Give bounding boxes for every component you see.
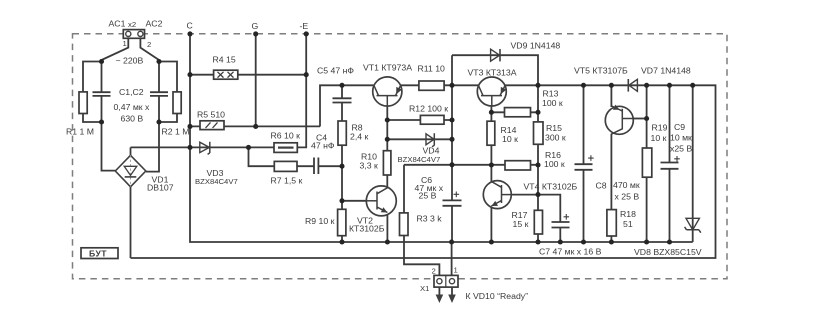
wire: VT4 emitter to rail xyxy=(490,206,492,242)
wire: G terminal line xyxy=(255,34,257,127)
svg-text:AC1: AC1 xyxy=(109,19,126,29)
resistor R3 xyxy=(400,213,409,236)
capacitor C7 electrolytic xyxy=(552,214,570,228)
connector X2 (AC input) xyxy=(123,30,144,39)
resistor R4 (fusible, xx marks) xyxy=(214,70,238,79)
svg-text:х 25 В: х 25 В xyxy=(615,192,640,202)
node: VT5 base / R19 xyxy=(644,116,649,121)
wire: R13 line xyxy=(491,111,538,113)
resistor R8 xyxy=(338,121,346,145)
capacitor C6 electrolytic xyxy=(443,192,462,206)
svg-text:630 В: 630 В xyxy=(121,114,144,124)
svg-text:G: G xyxy=(252,21,259,31)
transistor VT5 KT3107B (pnp, mirrored) xyxy=(605,105,633,135)
wire: AC1 pin1 down to left capacitor branch xyxy=(102,38,129,170)
svg-text:БУТ: БУТ xyxy=(89,248,107,258)
node: VD3 cathode / R6 / R7 xyxy=(246,145,251,150)
node: rail C8 xyxy=(581,239,586,244)
svg-text:300 к: 300 к xyxy=(545,133,566,143)
node: C4 / R8 bottom xyxy=(339,164,344,169)
transistor VT2 KT3102B (npn) xyxy=(366,186,396,216)
svg-text:C5 47 нФ: C5 47 нФ xyxy=(317,66,354,76)
wire: main vertical node line x452 with C6 xyxy=(451,55,453,242)
capacitor C1 xyxy=(93,92,111,96)
node: rail VT2 emitter xyxy=(385,239,390,244)
capacitor C5 xyxy=(333,98,352,102)
svg-text:R19: R19 xyxy=(652,123,668,133)
svg-text:R2 1 M: R2 1 M xyxy=(162,127,190,137)
svg-text:VT3 КТ313А: VT3 КТ313А xyxy=(468,68,517,78)
svg-text:10 к: 10 к xyxy=(502,134,518,144)
wire: R5 line xyxy=(190,125,320,127)
svg-text:R7 1,5 к: R7 1,5 к xyxy=(271,176,303,186)
node: VD8 top xyxy=(690,83,695,88)
transistor VT1 KT973A (pnp) xyxy=(373,77,402,106)
transistor VT3 KT313A (pnp) xyxy=(477,77,506,106)
svg-text:C: C xyxy=(187,21,193,31)
svg-text:R4 15: R4 15 xyxy=(213,55,236,65)
svg-text:2: 2 xyxy=(432,267,436,276)
wire: VT2 emitter to rail xyxy=(386,213,388,243)
node: C line / bridge+ / VD3 xyxy=(187,145,192,150)
resistor R9 xyxy=(338,209,346,235)
node: VT2 base xyxy=(339,198,344,203)
terminal C dot xyxy=(187,31,192,36)
svg-text:R15: R15 xyxy=(546,123,562,133)
node: C line / R5 xyxy=(187,124,192,129)
node: rail R17 xyxy=(535,239,540,244)
node: VD4 cathode xyxy=(449,137,454,142)
node: C8 top xyxy=(581,83,586,88)
svg-text:VT4 КТ3102Б: VT4 КТ3102Б xyxy=(524,182,578,192)
node: R19 top xyxy=(644,83,649,88)
svg-text:R11 10: R11 10 xyxy=(418,64,446,74)
capacitor C8 electrolytic xyxy=(575,155,594,170)
node: VD4 anode xyxy=(385,137,390,142)
wire: VT2 base line xyxy=(342,200,367,202)
resistor R5 (0.125W marks) xyxy=(200,121,224,130)
zener diode VD4 BZX84C4V7 xyxy=(426,133,434,147)
svg-text:Х1: Х1 xyxy=(420,284,429,293)
svg-text:C1,C2: C1,C2 xyxy=(119,87,144,97)
wire: C terminal line down and bottom common rail xyxy=(190,34,693,242)
wire: bridge - output stem down to lower rail xyxy=(130,187,132,258)
resistor R2 xyxy=(173,92,181,114)
diode VD7 1N4148 xyxy=(628,79,637,92)
wire: R7 C4 branch xyxy=(249,147,343,166)
BUT block label box xyxy=(81,248,118,259)
svg-text:3,3 к: 3,3 к xyxy=(360,161,378,171)
svg-text:2,4 к: 2,4 к xyxy=(350,132,368,142)
resistor R1 xyxy=(79,92,87,114)
wire: C8 line xyxy=(583,85,585,242)
svg-text:VD8 BZX85C15V: VD8 BZX85C15V xyxy=(634,247,702,257)
output arrow pin2 xyxy=(436,287,444,303)
node: R2 bottom junction xyxy=(156,119,161,124)
svg-text:VT5 КТ3107Б: VT5 КТ3107Б xyxy=(574,66,628,76)
diode VD9 1N4148 xyxy=(491,49,500,61)
svg-text:0,47 мк х: 0,47 мк х xyxy=(114,102,151,112)
wire: VD3 / R6 line from bridge to -E riser xyxy=(131,34,307,147)
node: R16 right xyxy=(535,162,540,167)
svg-text:R13: R13 xyxy=(543,89,559,99)
node: R11 / VT3 / x452 xyxy=(449,83,454,88)
resistor R10 xyxy=(383,151,391,175)
svg-text:47 нФ: 47 нФ xyxy=(311,141,335,151)
node: VT5 collector top xyxy=(609,83,614,88)
node: rail C7 xyxy=(558,239,563,244)
resistor R13 xyxy=(505,108,531,117)
wire: R5 riser, top supply line, right edge and lower rail xyxy=(131,85,716,258)
resistor R19 xyxy=(642,148,651,177)
capacitor C4 xyxy=(314,158,318,175)
svg-text:VD7 1N4148: VD7 1N4148 xyxy=(641,66,691,76)
wire: X1 pin1 up to rail xyxy=(451,242,453,276)
svg-text:10 к: 10 к xyxy=(651,133,667,143)
svg-text:VD4: VD4 xyxy=(423,146,440,156)
node: VT4 base / C7 branch xyxy=(535,192,540,197)
svg-text:R5 510: R5 510 xyxy=(197,110,225,120)
wire: R2 parallel branch xyxy=(159,62,177,123)
svg-text:R1 1 M: R1 1 M xyxy=(66,127,94,137)
svg-text:К VD10 “Ready”: К VD10 “Ready” xyxy=(466,291,529,301)
resistor R17 xyxy=(534,210,542,234)
node: x538 top xyxy=(535,83,540,88)
wire: R12 line xyxy=(387,119,452,121)
node: R1 bottom junction xyxy=(99,119,104,124)
svg-text:VT1 КТ973А: VT1 КТ973А xyxy=(363,63,412,73)
svg-text:25 В: 25 В xyxy=(419,191,437,201)
transistor VT4 KT3102B (npn, mirrored) xyxy=(483,181,511,209)
node: rail R9 xyxy=(339,239,344,244)
node: rail C6 / X1 pin1 xyxy=(449,239,454,244)
resistor R6 (0.5W mark) xyxy=(274,143,297,153)
zener diode VD8 BZX85C15V xyxy=(685,218,701,232)
resistor R12 xyxy=(420,115,444,124)
svg-text:10 мк: 10 мк xyxy=(670,133,692,143)
svg-text:470 мк: 470 мк xyxy=(613,180,640,190)
svg-text:1: 1 xyxy=(123,39,127,48)
svg-text:C7 47 мк x 16 В: C7 47 мк x 16 В xyxy=(539,247,602,257)
resistor R18 xyxy=(607,210,616,236)
wire: VD8 line xyxy=(692,85,694,242)
node: G line / R5 xyxy=(253,124,258,129)
node: R1 top junction xyxy=(99,59,104,64)
node: rail R18 xyxy=(609,239,614,244)
svg-text:DB107: DB107 xyxy=(147,183,174,193)
node: R3 / C6 / R16 line xyxy=(449,162,454,167)
svg-text:х2: х2 xyxy=(128,20,136,29)
wire: R19 vertical line xyxy=(646,85,648,242)
capacitor C9 electrolytic xyxy=(661,156,680,169)
wire: R3 branch down to connector X1 pin2 xyxy=(404,165,439,276)
svg-text:100 к: 100 к xyxy=(542,98,563,108)
svg-text:AC2: AC2 xyxy=(146,19,163,29)
svg-text:BZX84C4V7: BZX84C4V7 xyxy=(398,155,441,164)
connector X1 (Ready output) xyxy=(434,275,458,287)
svg-text:VD9 1N4148: VD9 1N4148 xyxy=(511,41,561,51)
node: VT3 base / R13 xyxy=(489,110,494,115)
wire: VD9 top line xyxy=(452,55,538,85)
wire: C7 branch xyxy=(538,195,560,242)
wire: AC2 pin2 down to right capacitor branch xyxy=(140,38,159,171)
capacitor C2 xyxy=(150,92,168,96)
svg-text:R3 3 k: R3 3 k xyxy=(417,214,443,224)
svg-text:-E: -E xyxy=(300,21,309,31)
wire: C9 line xyxy=(669,85,671,242)
block boundary dashed border (BUT unit) xyxy=(73,34,728,279)
terminal G dot xyxy=(253,31,258,36)
wire: R1 parallel branch xyxy=(83,62,102,123)
svg-text:C8: C8 xyxy=(596,181,607,191)
svg-text:КТ3102Б: КТ3102Б xyxy=(349,224,385,234)
svg-text:R18: R18 xyxy=(620,209,636,219)
svg-text:100 к: 100 к xyxy=(544,159,565,169)
svg-text:C9: C9 xyxy=(674,122,685,132)
svg-text:51: 51 xyxy=(623,219,633,229)
node: C line / R4 xyxy=(187,72,192,77)
svg-text:х25 В: х25 В xyxy=(670,144,692,154)
svg-text:2: 2 xyxy=(147,40,151,49)
wire: VT3 base down through R14 to VT4 collector xyxy=(490,106,492,183)
wire: bridge + output stem to node line xyxy=(130,147,132,155)
wire: R16 line from R3 node to x538 xyxy=(404,164,538,166)
svg-text:R9 10 к: R9 10 к xyxy=(305,216,335,226)
wire: VD4 line xyxy=(387,138,452,140)
wire: x538 vertical line xyxy=(537,85,539,242)
node: rail C9 xyxy=(667,239,672,244)
svg-text:~ 220В: ~ 220В xyxy=(116,56,144,66)
node: rail R19 xyxy=(644,239,649,244)
resistor R15 xyxy=(534,122,544,144)
node: R2 top junction xyxy=(156,59,161,64)
node: R13 right xyxy=(535,110,540,115)
wire: VT1 base down through R10 to VT2 collector xyxy=(386,106,388,189)
svg-text:R12 100 к: R12 100 к xyxy=(409,104,448,114)
node: C5 top xyxy=(339,83,344,88)
wire: C5 R8 R9 vertical line xyxy=(341,85,343,242)
resistor R14 xyxy=(487,121,495,145)
resistor R16 xyxy=(505,161,531,170)
terminal -E dot xyxy=(304,31,309,36)
node: VT1 base / R12 xyxy=(385,117,390,122)
node: rail VT4 emitter xyxy=(489,239,494,244)
node: C9 top xyxy=(667,83,672,88)
wire: VT4 base line xyxy=(511,194,538,196)
node: R12 right xyxy=(449,117,454,122)
resistor R11 xyxy=(419,81,444,90)
resistor R7 xyxy=(274,161,297,171)
wire: VT5 base to R19 line xyxy=(633,118,646,120)
bridge rectifier VD1 DB107 xyxy=(115,155,146,187)
wire: VT5 collector and emitter leads xyxy=(610,85,612,242)
zener diode VD3 BZX84C4V7 xyxy=(200,142,210,155)
wire: R4 line xyxy=(190,74,306,76)
node: R14 / VT4 collector xyxy=(489,162,494,167)
svg-text:BZX84C4V7: BZX84C4V7 xyxy=(195,177,238,186)
svg-text:1: 1 xyxy=(454,266,458,275)
svg-text:15 к: 15 к xyxy=(513,219,529,229)
svg-text:R6 10 к: R6 10 к xyxy=(271,131,301,141)
output arrow pin1 xyxy=(448,287,456,303)
node: -E line / R4 xyxy=(304,72,309,77)
